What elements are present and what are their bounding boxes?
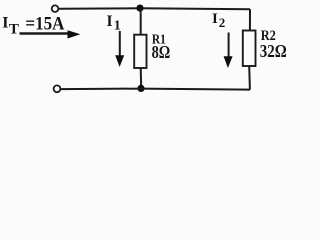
svg-text:8Ω: 8Ω [152, 42, 171, 62]
wire R1 top [140, 8, 142, 35]
svg-text:=15A: =15A [25, 15, 65, 35]
wire R2 bottom [248, 66, 251, 90]
label I1 [107, 13, 121, 34]
svg-text:T: T [9, 22, 19, 38]
node junction bottom [137, 85, 144, 92]
svg-text:I: I [2, 15, 8, 32]
svg-text:32Ω: 32Ω [260, 41, 287, 61]
node junction top [136, 5, 143, 12]
label IT (source current) [2, 15, 65, 38]
label I2 [212, 11, 225, 30]
svg-text:I: I [107, 13, 113, 30]
wire top [58, 8, 250, 9]
svg-text:2: 2 [219, 15, 226, 30]
terminal bottom-left (open circle) [54, 85, 61, 92]
current arrow I1 [115, 31, 124, 67]
resistor R1 [134, 35, 146, 68]
resistor R2 [243, 31, 256, 67]
wire R2 top [249, 9, 251, 30]
current arrow I2 [224, 33, 233, 69]
wire R1 bottom [140, 68, 143, 88]
terminal top-left (open circle) [52, 5, 59, 12]
arrow IT (source current direction) [20, 30, 81, 38]
wire bottom [60, 89, 250, 90]
svg-text:I: I [212, 11, 218, 27]
